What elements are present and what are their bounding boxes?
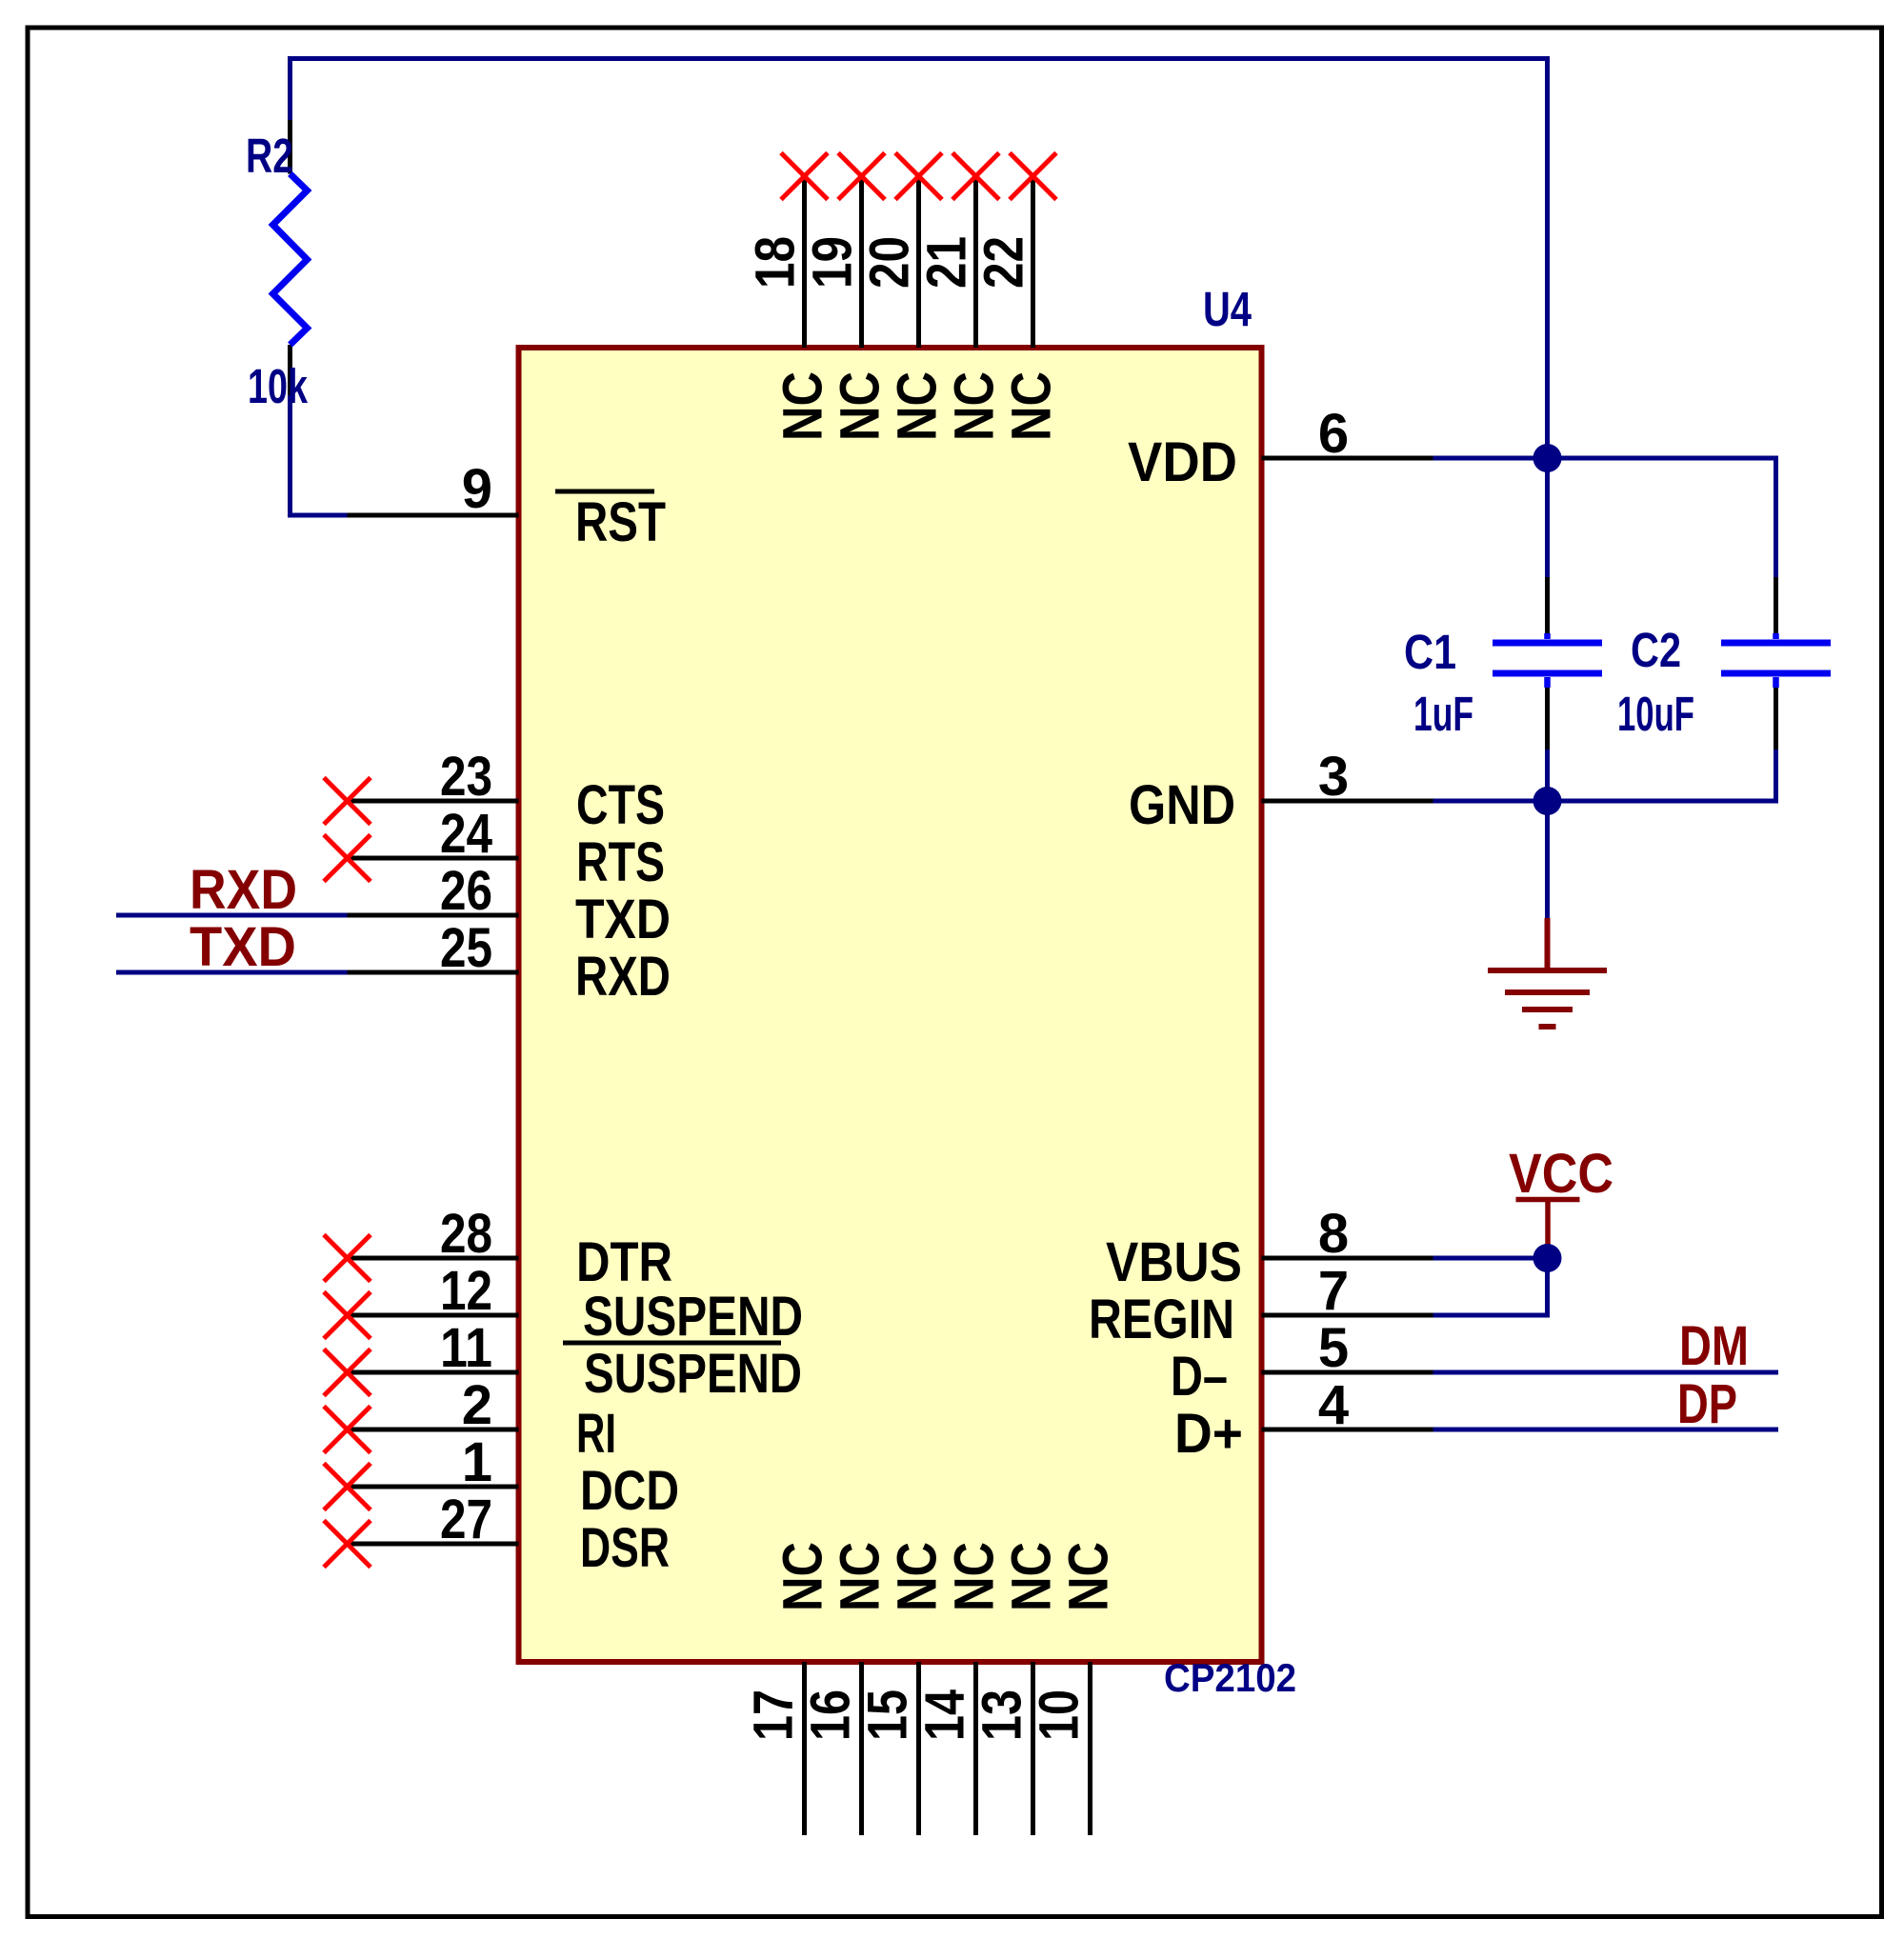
pin 16 NC (859, 1662, 864, 1835)
svg-text:D–: D– (1171, 1346, 1228, 1408)
ground (1545, 918, 1551, 970)
svg-text:DP: DP (1677, 1373, 1737, 1435)
svg-text:10k: 10k (248, 359, 308, 413)
pin 9 RST (348, 513, 519, 518)
svg-text:DM: DM (1679, 1315, 1749, 1377)
svg-text:D+: D+ (1174, 1403, 1243, 1465)
power symbol VCC (1545, 1200, 1551, 1259)
svg-text:C1: C1 (1404, 625, 1456, 679)
svg-text:7: 7 (1318, 1260, 1349, 1322)
svg-text:NC: NC (772, 371, 834, 441)
svg-text:CTS: CTS (576, 774, 665, 836)
svg-text:15: 15 (857, 1689, 919, 1741)
svg-text:VBUS: VBUS (1106, 1231, 1242, 1293)
svg-text:NC: NC (944, 371, 1006, 441)
wire D- pin 5 to DM label (1433, 1370, 1779, 1375)
svg-text:26: 26 (440, 860, 492, 922)
svg-text:20: 20 (859, 236, 921, 289)
pin 23 CTS (348, 799, 519, 804)
svg-text:NC: NC (1001, 371, 1063, 441)
svg-text:DCD: DCD (580, 1460, 679, 1522)
pin 14 NC (973, 1662, 978, 1835)
svg-text:NC: NC (1058, 1542, 1120, 1611)
pin 22 NC (1031, 176, 1035, 348)
svg-text:C2: C2 (1631, 623, 1681, 677)
pin 21 NC (973, 176, 978, 348)
svg-text:10: 10 (1029, 1689, 1091, 1741)
svg-text:DTR: DTR (576, 1231, 672, 1293)
pin 8 VBUS (1262, 1256, 1433, 1261)
svg-text:9: 9 (462, 458, 492, 520)
svg-text:11: 11 (440, 1317, 492, 1379)
pin 17 NC (802, 1662, 807, 1835)
pin 19 NC (859, 176, 864, 348)
svg-text:21: 21 (916, 236, 978, 289)
pin 7 REGIN (1262, 1313, 1433, 1318)
svg-text:8: 8 (1318, 1203, 1349, 1265)
wire GND pin 3 to junction (1433, 799, 1548, 804)
svg-text:RXD: RXD (575, 946, 671, 1008)
wire from R2 top across the top to C1 column (291, 59, 1548, 459)
wire RXD net to TXD pin 26 (116, 913, 348, 918)
junction at VDD node (1533, 444, 1562, 472)
pin 10 NC (1088, 1662, 1092, 1835)
resistor R2 (288, 120, 292, 174)
pin 18 NC (802, 176, 807, 348)
pin 24 RTS (348, 856, 519, 861)
pin 2 RI (348, 1428, 519, 1432)
pin 12 SUSPEND (348, 1313, 519, 1318)
wire C2 bottom to GND junction (1548, 750, 1776, 801)
pin 15 NC (916, 1662, 921, 1835)
pin 26 TXD (348, 913, 519, 918)
wire VDD pin 6 to junction (1433, 456, 1548, 461)
pin 3 GND (1262, 799, 1433, 804)
svg-text:16: 16 (800, 1689, 862, 1741)
svg-text:23: 23 (440, 746, 492, 808)
svg-text:RST: RST (575, 491, 666, 553)
svg-text:12: 12 (440, 1260, 492, 1322)
svg-text:VDD: VDD (1128, 431, 1237, 493)
junction at GND node (1533, 787, 1562, 815)
svg-text:19: 19 (802, 236, 864, 289)
svg-text:NC: NC (887, 1542, 949, 1611)
svg-text:1uF: 1uF (1413, 687, 1473, 741)
wire VBUS pin 8 to VCC junction (1433, 1256, 1548, 1261)
svg-text:NC: NC (887, 371, 949, 441)
junction at VCC node (1533, 1244, 1562, 1272)
wire D+ pin 4 to DP label (1433, 1428, 1779, 1432)
svg-text:NC: NC (1001, 1542, 1063, 1611)
svg-text:DSR: DSR (580, 1517, 670, 1579)
svg-text:SUSPEND: SUSPEND (584, 1343, 802, 1405)
wire TXD net to RXD pin 25 (116, 970, 348, 975)
svg-text:NC: NC (830, 371, 892, 441)
svg-text:CP2102: CP2102 (1164, 1655, 1296, 1700)
svg-text:TXD: TXD (575, 889, 671, 950)
svg-text:VCC: VCC (1509, 1143, 1613, 1205)
svg-text:18: 18 (745, 236, 807, 289)
wire GND junction down to ground (1545, 801, 1550, 918)
svg-text:SUSPEND: SUSPEND (583, 1286, 803, 1348)
svg-text:25: 25 (440, 917, 492, 979)
svg-text:RXD: RXD (190, 859, 297, 921)
svg-text:U4: U4 (1203, 282, 1252, 336)
capacitor C2 (1774, 577, 1778, 633)
svg-text:NC: NC (772, 1542, 834, 1611)
pin 11 SUSPEND (348, 1370, 519, 1375)
capacitor C1 (1545, 577, 1550, 633)
svg-text:10uF: 10uF (1617, 687, 1694, 741)
svg-text:2: 2 (462, 1374, 492, 1436)
svg-text:28: 28 (440, 1203, 492, 1265)
svg-text:24: 24 (440, 803, 492, 865)
svg-text:3: 3 (1318, 746, 1349, 808)
pin 27 DSR (348, 1542, 519, 1547)
svg-text:GND: GND (1129, 774, 1235, 836)
pin 1 DCD (348, 1485, 519, 1489)
pin 5 D&#8211; (1262, 1370, 1433, 1375)
pin 28 DTR (348, 1256, 519, 1261)
IC U4 CP2102 body (519, 348, 1262, 1662)
svg-text:17: 17 (743, 1689, 805, 1741)
pin 25 RXD (348, 970, 519, 975)
wire C1 top segment (1545, 458, 1550, 577)
wire REGIN pin 7 up to VCC junction (1433, 1258, 1548, 1315)
svg-text:4: 4 (1318, 1374, 1349, 1436)
pin 4 D+ (1262, 1428, 1433, 1432)
wire junction to C2 top (1548, 458, 1776, 577)
svg-text:13: 13 (972, 1689, 1033, 1741)
svg-text:RTS: RTS (576, 831, 665, 893)
wire R2 bottom to RST pin 9 (291, 395, 348, 515)
svg-text:R2: R2 (246, 129, 293, 183)
pin 13 NC (1031, 1662, 1035, 1835)
wire C1 bottom segment (1545, 750, 1550, 801)
svg-text:6: 6 (1318, 403, 1349, 465)
svg-text:14: 14 (914, 1689, 976, 1741)
svg-text:REGIN: REGIN (1089, 1289, 1234, 1350)
svg-text:NC: NC (944, 1542, 1006, 1611)
pin 20 NC (916, 176, 921, 348)
svg-text:RI: RI (576, 1403, 616, 1465)
svg-text:5: 5 (1318, 1317, 1349, 1379)
svg-text:22: 22 (973, 236, 1035, 289)
pin 6 VDD (1262, 456, 1433, 461)
svg-text:27: 27 (440, 1489, 492, 1550)
svg-text:TXD: TXD (190, 916, 296, 978)
svg-text:NC: NC (830, 1542, 892, 1611)
svg-text:1: 1 (462, 1431, 492, 1493)
